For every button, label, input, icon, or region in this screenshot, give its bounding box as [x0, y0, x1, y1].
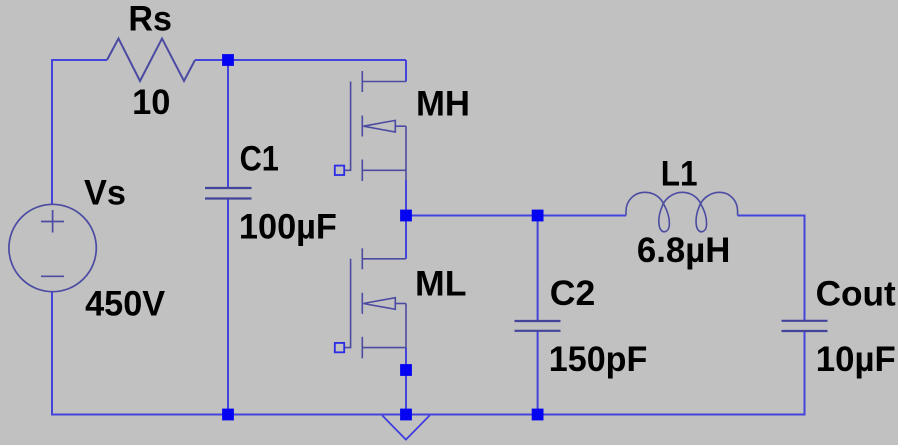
svg-text:450V: 450V: [85, 284, 165, 324]
voltage source Vs: [9, 204, 96, 291]
wire C1 bottom lead: [227, 199, 229, 415]
wire C2 top lead: [537, 216, 539, 322]
wire C2 bottom lead: [537, 331, 539, 415]
node square ML source: [400, 364, 412, 376]
svg-text:Rs: Rs: [128, 0, 172, 39]
svg-text:MH: MH: [416, 84, 470, 124]
wire Cout top lead: [804, 215, 806, 321]
svg-text:10: 10: [132, 82, 170, 122]
svg-text:6.8µH: 6.8µH: [637, 230, 731, 270]
node square C2 bottom: [532, 409, 544, 421]
svg-text:ML: ML: [415, 263, 467, 303]
ground: [382, 415, 430, 439]
wire C1 top lead: [227, 60, 229, 188]
wire left vertical from Vs minus terminal to bottom rail: [51, 291, 53, 416]
svg-text:C2: C2: [550, 273, 596, 313]
capacitor Cout: [782, 321, 828, 331]
wire MH drain lead: [405, 60, 407, 82]
node square switch node: [400, 210, 412, 222]
inductor L1: [626, 192, 738, 231]
node square ground: [400, 409, 412, 421]
svg-text:L1: L1: [661, 154, 698, 194]
wire top rail from resistor to MH drain: [195, 59, 406, 61]
svg-text:Vs: Vs: [84, 173, 126, 213]
wire mid rail from L1 to Cout: [738, 215, 805, 217]
gate pin square ML: [335, 343, 344, 352]
wire MH source to switch node: [405, 180, 407, 216]
wire ML drain lead: [405, 216, 407, 259]
svg-text:150pF: 150pF: [549, 339, 648, 379]
resistor Rs: [107, 39, 195, 82]
node square C1 bottom: [222, 409, 234, 421]
wire mid rail from switch node to L1: [406, 215, 626, 217]
node square top C1: [222, 54, 234, 66]
svg-text:C1: C1: [240, 139, 279, 179]
transistor ML: [344, 248, 406, 358]
wire Cout bottom lead: [804, 331, 806, 416]
transistor MH: [344, 71, 406, 181]
wire bottom rail: [51, 414, 806, 416]
capacitor C2: [515, 321, 561, 331]
wire top rail left segment: [52, 59, 107, 61]
capacitor C1: [205, 188, 252, 199]
svg-text:100µF: 100µF: [239, 206, 337, 246]
svg-text:10µF: 10µF: [816, 339, 896, 379]
gate pin square MH: [335, 166, 344, 175]
wire ML source to ground node: [405, 348, 407, 415]
node square C2 top: [532, 210, 544, 222]
wire left vertical from top rail to Vs plus terminal: [51, 59, 53, 205]
svg-text:Cout: Cout: [816, 273, 896, 313]
